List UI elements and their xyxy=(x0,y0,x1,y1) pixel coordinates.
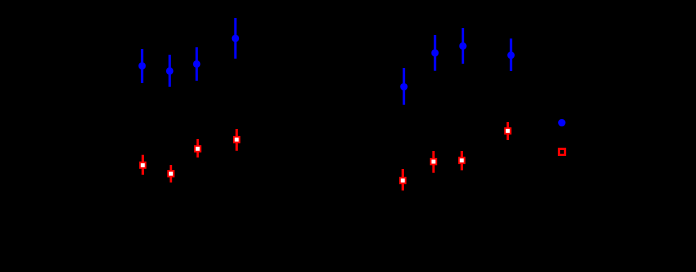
right panel: blue data point 2 xyxy=(431,49,438,56)
left panel: red series error bar 3 xyxy=(196,139,198,158)
left panel: blue series error bar 3 xyxy=(195,47,197,81)
right panel: red data point 3 (open square, white center) xyxy=(458,157,465,164)
left panel: red series error bar 4 xyxy=(235,129,237,151)
right panel: red series error bar 4 xyxy=(507,122,509,140)
right panel: blue series error bar 4 xyxy=(510,39,512,72)
right panel: blue series error bar 3 xyxy=(462,28,464,64)
left panel: blue series error bar 1 xyxy=(141,49,143,83)
left panel: red series error bar 2 xyxy=(170,165,172,183)
right panel: red series error bar 2 xyxy=(432,151,434,173)
left panel: blue data point 3 xyxy=(193,60,200,67)
left panel: blue series error bar 2 xyxy=(168,55,170,87)
right panel: blue series error bar 1 xyxy=(403,68,405,105)
right panel: red data point 1 (open square, white center) xyxy=(399,177,406,184)
right panel: red data point 4 (open square, white center) xyxy=(504,127,511,134)
left panel: red data point 4 (open square, white center) xyxy=(233,136,240,143)
left panel: red data point 2 (open square, white center) xyxy=(167,170,174,177)
right panel: red series error bar 3 xyxy=(461,151,463,170)
right panel: blue data point 4 xyxy=(507,52,514,59)
right panel: red data point 2 (open square, white center) xyxy=(430,158,437,165)
legend: red marker (open square, hollow) xyxy=(559,149,565,155)
right panel: blue series error bar 2 xyxy=(434,35,436,71)
left panel: blue data point 2 xyxy=(166,67,173,74)
right panel: red series error bar 1 xyxy=(402,169,404,191)
left panel: blue data point 1 xyxy=(138,62,145,69)
left panel: red data point 3 (open square, white center) xyxy=(194,145,201,152)
right panel: blue data point 3 xyxy=(459,42,466,49)
left panel: blue series error bar 4 xyxy=(234,18,236,59)
legend: blue marker (filled circle) xyxy=(558,119,565,126)
left panel: red data point 1 (open square, white center) xyxy=(139,162,146,169)
right panel: blue data point 1 xyxy=(400,83,407,90)
left panel: red series error bar 1 xyxy=(142,155,144,175)
left panel: blue data point 4 xyxy=(232,35,239,42)
